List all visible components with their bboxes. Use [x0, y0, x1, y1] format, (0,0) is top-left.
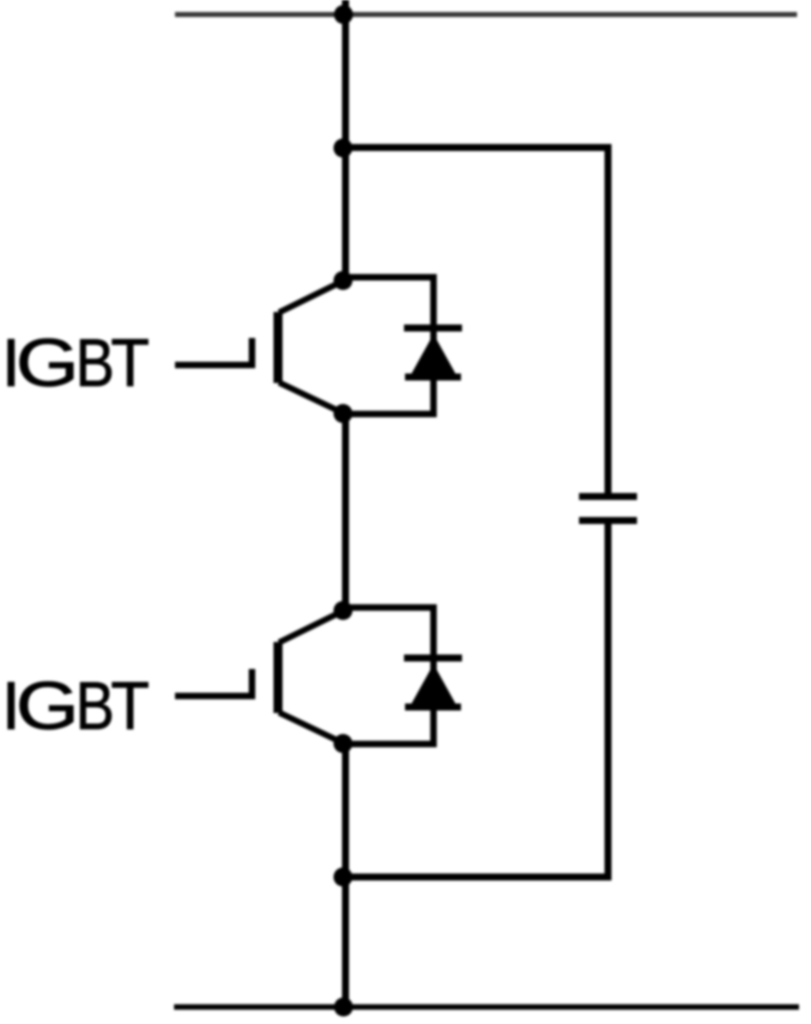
svg-text:G: G — [16, 667, 79, 743]
svg-text:B: B — [76, 669, 115, 744]
svg-text:G: G — [16, 324, 79, 400]
svg-text:T: T — [111, 324, 150, 400]
svg-text:B: B — [76, 326, 115, 401]
svg-text:T: T — [111, 667, 150, 743]
